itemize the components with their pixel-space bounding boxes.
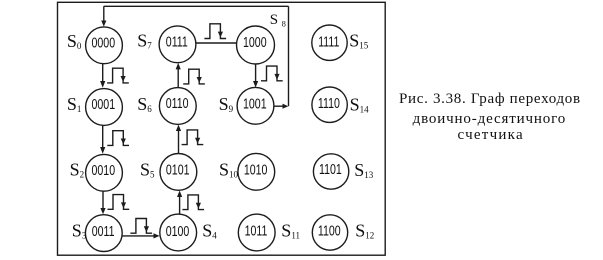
arrowhead into S3: [100, 208, 105, 214]
state S14 circle: [312, 87, 347, 122]
svg-text:0110: 0110: [166, 96, 189, 112]
state S13 circle: [313, 154, 348, 189]
arrowhead into S7: [176, 63, 181, 70]
svg-text:1001: 1001: [243, 96, 267, 112]
state S15 circle: [312, 25, 347, 60]
arrowhead pulse P3: [121, 202, 126, 208]
svg-text:1000: 1000: [243, 34, 267, 50]
wire feedback drop into S0: [103, 6, 105, 21]
svg-text:0001: 0001: [92, 97, 116, 113]
wire feedback top: [104, 5, 289, 7]
svg-text:S2: S2: [70, 160, 85, 180]
state S5 circle: [160, 154, 197, 191]
arrowhead pulse P8: [218, 32, 223, 38]
pulse symbol P5 (S4-S5): [182, 195, 204, 210]
pulse symbol P8 (S7-S8): [204, 24, 226, 39]
arrowhead pulse P4: [144, 226, 149, 232]
wire S2 to S3: [102, 191, 104, 208]
arrowhead pulse P7: [197, 77, 202, 83]
pulse symbol P7 (S6-S7): [183, 69, 205, 84]
svg-text:0000: 0000: [92, 35, 116, 51]
svg-text:1011: 1011: [245, 223, 268, 239]
svg-text:0011: 0011: [92, 223, 115, 239]
svg-text:0101: 0101: [166, 162, 190, 178]
wire junction up: [288, 6, 290, 106]
wire S1 to S2: [102, 125, 104, 147]
state S4 circle: [160, 214, 197, 251]
svg-text:S14: S14: [350, 95, 370, 115]
arrowhead pulse P2: [121, 139, 126, 145]
state S6 circle: [159, 88, 196, 125]
svg-text:S10: S10: [219, 160, 239, 180]
pulse symbol P4 (S3-S4): [130, 219, 152, 234]
svg-text:1101: 1101: [319, 162, 342, 178]
wire S8 to S9: [255, 64, 257, 82]
svg-text:S7: S7: [137, 30, 152, 50]
state S8 circle: [237, 26, 275, 64]
arrowhead into S6: [176, 125, 181, 131]
svg-text:1010: 1010: [244, 162, 268, 178]
wire S4 to S5: [179, 197, 181, 215]
arrowhead into S4: [154, 233, 160, 238]
wire S7 to S8: [196, 42, 237, 44]
svg-text:1100: 1100: [318, 223, 341, 239]
svg-text:1110: 1110: [318, 95, 340, 111]
arrowhead into S9: [253, 81, 258, 88]
state S9 circle: [237, 87, 274, 124]
wire S0 to S1: [102, 64, 104, 82]
pulse symbol P3 (S2-S3): [108, 195, 130, 210]
svg-text:S15: S15: [349, 30, 369, 50]
svg-text:S8: S8: [270, 12, 286, 29]
svg-text:двоично-десятичного: двоично-десятичного: [413, 111, 567, 127]
state S10 circle: [238, 153, 275, 190]
svg-text:0010: 0010: [92, 162, 116, 178]
svg-text:S4: S4: [202, 220, 217, 240]
wire S9 to junction: [274, 105, 286, 107]
arrowhead into S5: [177, 191, 182, 198]
svg-text:S0: S0: [67, 31, 82, 51]
wire S5 to S6: [178, 131, 180, 154]
svg-text:S13: S13: [354, 160, 374, 180]
state S1 circle: [86, 89, 123, 126]
svg-text:S11: S11: [281, 221, 300, 241]
svg-text:1111: 1111: [318, 34, 339, 50]
state S2 circle: [86, 154, 123, 191]
svg-text:S1: S1: [67, 94, 82, 114]
svg-text:S12: S12: [355, 221, 374, 241]
pulse symbol P9 (S8-S9): [261, 66, 283, 81]
arrowhead into S2: [100, 147, 105, 154]
svg-text:счетчика: счетчика: [458, 127, 524, 143]
state S7 circle: [159, 26, 196, 63]
wire S3 to S4: [122, 235, 154, 237]
svg-text:S9: S9: [219, 94, 234, 114]
border frame of state graph: [58, 2, 386, 255]
svg-text:0111: 0111: [166, 34, 188, 50]
svg-text:S6: S6: [137, 94, 152, 114]
arrowhead pulse P9: [274, 74, 279, 80]
pulse symbol P1 (S0-S1): [107, 68, 129, 83]
wire S6 to S7: [177, 69, 179, 88]
state S0 circle: [86, 27, 123, 64]
svg-text:0100: 0100: [166, 223, 190, 239]
svg-text:Рис. 3.38. Граф переходов: Рис. 3.38. Граф переходов: [399, 91, 581, 107]
svg-text:S3: S3: [72, 220, 87, 240]
arrowhead into S1: [100, 81, 105, 88]
arrowhead S9 to junction: [283, 104, 289, 109]
svg-text:S5: S5: [140, 160, 155, 180]
pulse symbol P6 (S5-S6): [182, 130, 204, 145]
arrowhead into S0: [101, 21, 106, 27]
state S3 circle: [85, 215, 122, 252]
state S12 circle: [312, 215, 347, 250]
pulse symbol P2 (S1-S2): [107, 131, 129, 146]
state S11 circle: [238, 214, 275, 251]
arrowhead pulse P5: [196, 203, 201, 209]
arrowhead pulse P6: [195, 138, 200, 144]
arrowhead pulse P1: [121, 76, 126, 82]
